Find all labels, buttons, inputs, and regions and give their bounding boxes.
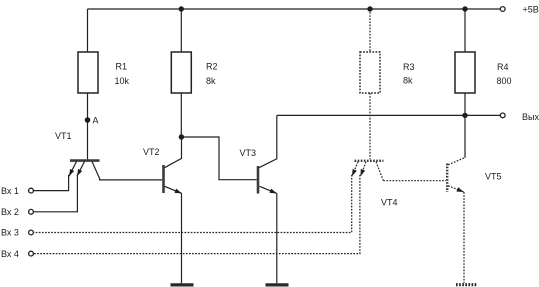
wire VT1 collector to VT2 base — [100, 178, 163, 180]
terminal Вх2 — [29, 209, 34, 214]
node: VT2 collector junction — [179, 134, 184, 139]
transistor VT4 (multi-emitter, dotted) — [352, 161, 384, 181]
resistor R3 (dotted) — [360, 52, 380, 93]
transistor VT3 — [258, 115, 277, 193]
node: output junction under R4 — [462, 113, 467, 118]
output wire to Вых — [277, 114, 500, 116]
wire VT2 emitter to ground — [181, 193, 183, 283]
svg-text:VT5: VT5 — [485, 171, 502, 181]
svg-text:Вх 3: Вх 3 — [1, 228, 19, 238]
svg-text:R1: R1 — [116, 62, 128, 72]
wire VT4 collector to VT5 base (dotted) — [383, 180, 446, 182]
transistor VT5 (dotted) — [447, 158, 465, 192]
svg-text:Вх 2: Вх 2 — [1, 207, 19, 217]
ground (VT3 emitter) — [266, 283, 289, 286]
terminal Вх3 — [29, 230, 34, 235]
wire R4 through output node to VT5 collector — [464, 93, 466, 158]
resistor R1 — [78, 52, 98, 93]
wire rail to R1 — [87, 9, 89, 52]
ground (VT5 emitter, dotted) — [456, 283, 478, 286]
svg-text:Вх 1: Вх 1 — [1, 186, 19, 196]
terminal Вых — [500, 113, 505, 118]
svg-text:R4: R4 — [497, 62, 509, 72]
svg-text:VT4: VT4 — [381, 198, 398, 208]
svg-text:VT2: VT2 — [143, 147, 160, 157]
svg-text:800: 800 — [497, 76, 512, 86]
wire R2 to VT2 collector node — [180, 93, 182, 137]
svg-text:+5В: +5В — [523, 5, 539, 15]
wire VT4 emitter1 to input Вх3 (dotted) — [33, 175, 351, 233]
wire VT4 emitter2 to input Вх4 (dotted) — [33, 175, 360, 254]
wire R1 to VT1 base — [87, 93, 89, 159]
svg-text:A: A — [93, 116, 99, 126]
wire rail to R2 — [180, 9, 182, 52]
svg-text:Вх 4: Вх 4 — [1, 249, 19, 259]
svg-text:R3: R3 — [403, 62, 415, 72]
wire VT1 emitter2 to input Вх2 — [33, 175, 77, 212]
terminal Вх1 — [29, 188, 34, 193]
resistor R2 — [171, 52, 191, 93]
wire VT2 collector node to VT3 base — [181, 137, 256, 180]
ground (VT2 emitter) — [171, 283, 194, 286]
resistor R4 — [455, 52, 475, 93]
transistor VT2 — [164, 137, 182, 193]
terminal +5V — [500, 7, 505, 12]
wire VT5 emitter to ground (dotted) — [463, 192, 465, 283]
svg-text:R2: R2 — [206, 62, 218, 72]
svg-text:Вых: Вых — [522, 112, 539, 122]
node: rail junction above R4 — [462, 6, 467, 11]
wire R3 to VT4 base (dotted) — [369, 93, 371, 159]
wire rail to R4 — [464, 9, 466, 52]
svg-text:VT3: VT3 — [240, 148, 257, 158]
node A — [85, 117, 91, 123]
terminal Вх4 — [29, 251, 34, 256]
svg-text:8k: 8k — [206, 76, 216, 86]
wire rail to R3 (dotted) — [369, 9, 371, 52]
transistor VT1 (multi-emitter) — [69, 161, 100, 179]
node: rail junction above R2 — [179, 6, 184, 11]
svg-text:8k: 8k — [403, 76, 413, 86]
svg-text:VT1: VT1 — [55, 131, 72, 141]
+5V power rail wire — [88, 8, 501, 10]
svg-text:10k: 10k — [115, 76, 130, 86]
wire VT3 emitter to ground — [276, 193, 278, 283]
node: rail junction above R3 — [367, 6, 372, 11]
wire VT1 emitter1 to input Вх1 — [33, 175, 68, 191]
